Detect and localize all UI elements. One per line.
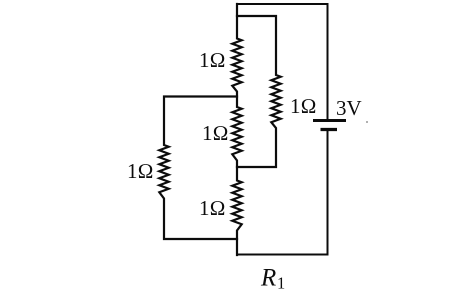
svg-text:1Ω: 1Ω <box>290 94 317 118</box>
svg-text:1: 1 <box>277 274 285 293</box>
svg-text:1Ω: 1Ω <box>199 196 226 220</box>
svg-text:1Ω: 1Ω <box>199 48 226 72</box>
svg-text:1Ω: 1Ω <box>202 121 229 145</box>
svg-text:3V: 3V <box>336 96 362 120</box>
svg-text:R: R <box>260 265 276 292</box>
svg-text:1Ω: 1Ω <box>127 159 154 183</box>
